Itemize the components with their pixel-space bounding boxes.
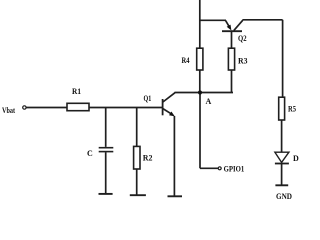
svg-text:GND: GND	[276, 192, 292, 200]
svg-text:C: C	[87, 149, 93, 158]
svg-text:Q2: Q2	[238, 34, 247, 43]
svg-text:Q1: Q1	[144, 94, 152, 103]
svg-text:R3: R3	[238, 57, 248, 66]
svg-text:R1: R1	[72, 87, 81, 96]
svg-text:R2: R2	[143, 154, 153, 163]
svg-text:GPIO1: GPIO1	[224, 164, 245, 173]
svg-text:R4: R4	[182, 56, 190, 65]
svg-text:R5: R5	[288, 105, 296, 114]
svg-text:Vbat: Vbat	[2, 106, 15, 115]
svg-text:A: A	[206, 97, 212, 106]
svg-text:D: D	[293, 154, 299, 163]
